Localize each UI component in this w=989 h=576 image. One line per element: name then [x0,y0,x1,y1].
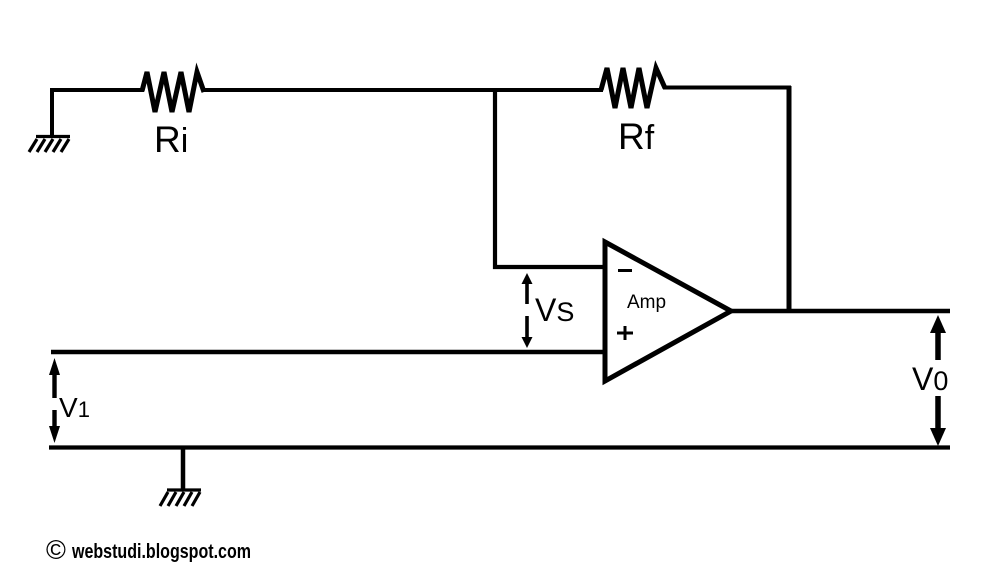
svg-text:©: © [46,535,66,565]
watermark: © webstudi.blogspot.com [46,535,251,565]
wire: Rf to feedback corner [663,86,791,90]
label − (inverting input pin) [618,269,632,272]
arrow V1 (input voltage, double-headed) [49,358,60,443]
wire: top rail from Ri to Rf [202,88,603,92]
arrow V0 (output voltage, double-headed) [930,315,946,446]
svg-text:Rf: Rf [618,116,655,157]
wire: non-inverting input rail [51,350,604,354]
arrow Vs (differential input voltage, double-headed dashed) [522,273,533,348]
ground (bottom) [160,490,201,506]
svg-text:VS: VS [535,292,574,328]
resistor Rf [601,68,665,108]
op-amp U1 (Amp) [605,242,731,381]
ground (top-left, input side) [29,137,70,153]
wire: top rail from ground riser to Ri [50,88,144,92]
svg-text:Ri: Ri [154,119,188,160]
svg-text:V0: V0 [912,361,948,397]
resistor Ri [142,72,204,112]
wire: left riser from top rail down to input ground [50,88,54,136]
svg-text:Amp: Amp [627,292,666,313]
wire: feedback junction riser down to inverting input [495,90,604,267]
wire: output from op-amp apex to right edge [729,309,950,313]
svg-text:webstudi.blogspot.com: webstudi.blogspot.com [71,540,251,563]
label + (non-inverting input pin) [617,326,633,340]
wire: ground stem from bottom rail [181,447,186,490]
wire: feedback drop from corner to output node [787,86,792,313]
svg-text:V1: V1 [59,392,90,423]
wire: bottom rail (common / ground return) [49,445,950,449]
